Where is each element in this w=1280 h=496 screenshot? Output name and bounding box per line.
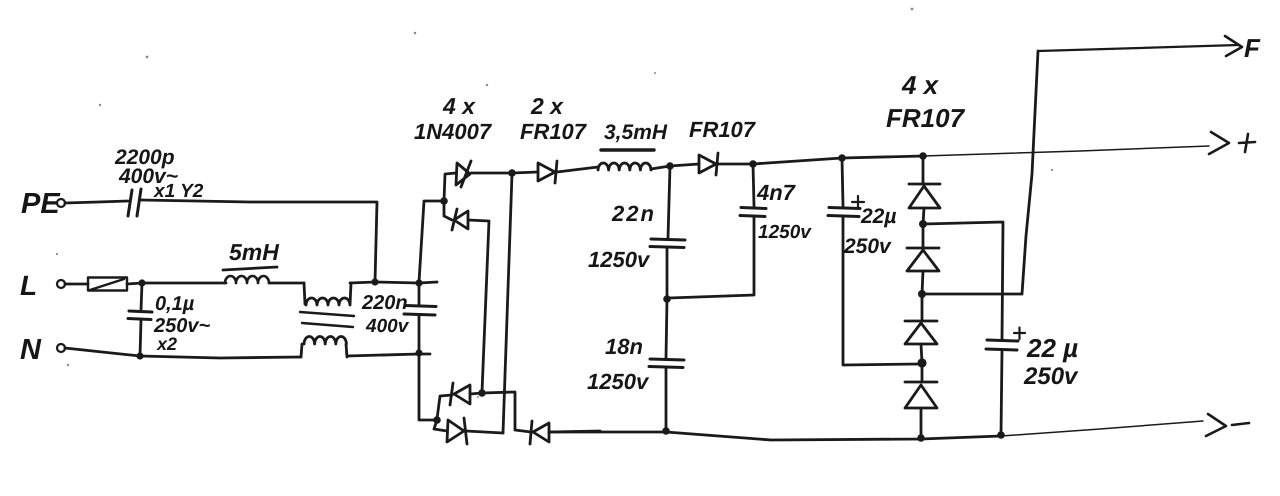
diode D9 FR107 (907, 248, 939, 271)
label C6 4n7 1250V (756, 180, 812, 243)
wire D5 anode to minus rail (549, 431, 600, 432)
capacitor C3 220n X-cap (404, 284, 436, 353)
svg-text:1250v: 1250v (587, 369, 650, 394)
common-mode choke L2 lower winding (301, 337, 347, 358)
label bridge 4X 1N4007 (414, 93, 493, 144)
terminal N (20, 334, 65, 366)
wire node K3 to diode D11 (921, 363, 924, 381)
capacitor C8 22u electrolytic (986, 328, 1025, 436)
diode D7 FR107 (699, 153, 718, 175)
fuse F1 (88, 278, 127, 291)
node C4-C5 junction (663, 295, 671, 303)
wire D7 to node T2 (718, 163, 753, 166)
node T1 junction (666, 162, 674, 170)
wire node A to D2 cathode (444, 201, 452, 220)
terminal L (20, 270, 65, 301)
label C2 0,1u 250V~ x2 (153, 293, 210, 354)
svg-text:0,1µ: 0,1µ (155, 293, 195, 315)
wire L3 to node T1 (651, 166, 670, 169)
svg-text:22n: 22n (611, 201, 656, 226)
svg-text:22µ: 22µ (860, 205, 896, 228)
diode D8 FR107 (909, 184, 940, 208)
capacitor C4 22n (650, 166, 685, 299)
common-mode choke L2 core (300, 312, 354, 327)
wire node M to D5 cathode (482, 392, 531, 432)
capacitor C5 18n (649, 299, 684, 431)
svg-text:400v: 400v (365, 316, 410, 337)
svg-text:220n: 220n (361, 292, 408, 314)
wire D9 to node K2 (922, 271, 923, 294)
wire node K2 to diode D10 (921, 294, 924, 320)
node C8 minus rail junction (997, 431, 1005, 439)
node C3 top junction (415, 279, 422, 286)
node B bridge AC input junction (433, 416, 441, 424)
wire node P1 to diode D6 (512, 172, 538, 173)
wire node T4 to diode D8 (922, 156, 925, 183)
node C3 bottom junction (415, 349, 422, 356)
wire node T2 to node T3 (753, 158, 842, 164)
label C1 2200p 400V~ X1Y2 (114, 146, 204, 202)
wire D6 to inductor L3 (557, 167, 598, 172)
node A bridge AC input junction (440, 197, 448, 205)
terminal PE (21, 188, 65, 220)
node K3 junction (917, 358, 926, 367)
svg-text:FR107: FR107 (520, 119, 588, 144)
node K1 junction (919, 220, 927, 228)
diode D6 FR107 plus rail (538, 161, 557, 183)
node chain minus rail junction (917, 434, 925, 442)
wire node K1 to diode D9 (922, 224, 925, 247)
svg-text:FR107: FR107 (886, 103, 966, 133)
svg-text:250v: 250v (1023, 363, 1079, 390)
wire node T4 to plus output arrow (923, 146, 1209, 156)
wire node T3 to node T4 (842, 156, 923, 158)
diode D2 1N4007 (452, 209, 468, 230)
wire node K2 to F output riser (922, 51, 1038, 294)
svg-text:2 x: 2 x (530, 93, 564, 119)
label C8 22u 250V (1023, 333, 1079, 390)
wire node N0 to choke lower winding (140, 356, 301, 358)
label C4 22n 1250V (588, 201, 656, 272)
wire minus rail (549, 432, 1001, 440)
node T4 plus output junction (919, 152, 927, 160)
node PE-L junction (371, 278, 378, 285)
svg-text:F: F (1244, 33, 1261, 63)
arrow F output (1225, 33, 1261, 63)
label 2X FR107 (520, 93, 588, 144)
wire F riser to F arrow (1038, 45, 1238, 51)
node P1 plus-rail junction (508, 169, 516, 177)
svg-text:18n: 18n (605, 334, 643, 359)
node M minus junction (478, 389, 486, 397)
svg-text:5mH: 5mH (229, 239, 279, 265)
diode D11 FR107 (905, 382, 937, 408)
wire D4 cathode to plus riser (466, 431, 503, 433)
diode D3 1N4007 (450, 383, 470, 405)
node L0 junction (138, 279, 145, 286)
label C7 22u 250V (843, 205, 896, 258)
wire D1 cathode to node P1 (471, 172, 512, 175)
capacitor C2 0,1u X-cap (128, 283, 152, 356)
inductor L1 5mH coil with core (223, 267, 277, 283)
scan speckles (56, 8, 1053, 398)
node N0 junction (136, 352, 143, 359)
wire D10 to node K3 (921, 344, 922, 363)
capacitor C7 22u electrolytic (828, 158, 918, 365)
capacitor C1 2200p Y-cap (128, 189, 141, 216)
label chain 4X FR107 (886, 70, 966, 133)
node C5 minus rail junction (662, 427, 670, 435)
wire C1 to node L1 (PE riser) (141, 200, 377, 282)
capacitor C6 4n7 (669, 164, 766, 298)
label C5 18n 1250V (587, 334, 650, 394)
svg-text:N: N (20, 334, 42, 366)
wire L terminal to fuse F1 (65, 283, 88, 286)
inductor L3 3,5mH coil with core (598, 150, 654, 170)
arrow plus output (1209, 132, 1255, 154)
node T2 junction (749, 160, 757, 168)
wire D3 cathode to node B (437, 395, 452, 419)
wire node B to D4 anode (434, 420, 447, 431)
wire minus rail to minus arrow (1001, 421, 1203, 436)
arrow minus output (1206, 414, 1249, 436)
svg-text:4n7: 4n7 (756, 180, 797, 205)
wire choke upper out to node A riser (350, 282, 437, 283)
wire PE terminal to C1 (65, 201, 128, 203)
svg-text:1N4007: 1N4007 (414, 119, 493, 144)
svg-text:FR107: FR107 (689, 117, 757, 142)
wire node C3 bottom down to bridge node B (419, 353, 436, 420)
svg-text:1250v: 1250v (758, 222, 812, 243)
wire node A up to bridge (419, 201, 444, 282)
wire choke lower out to node C3 bottom (347, 354, 430, 356)
diode D1 1N4007 (456, 161, 471, 187)
svg-text:x1 Y2: x1 Y2 (153, 181, 204, 202)
common-mode choke L2 upper winding (304, 283, 351, 305)
svg-text:250v: 250v (843, 235, 892, 258)
node K2 junction (918, 290, 926, 298)
svg-text:22 µ: 22 µ (1026, 333, 1078, 363)
wire D3 anode to node M (470, 393, 482, 394)
svg-text:1250v: 1250v (588, 247, 651, 272)
wire D11 to minus rail (920, 408, 923, 438)
diode D4 1N4007 (447, 418, 467, 444)
svg-text:L: L (20, 270, 37, 301)
svg-text:x2: x2 (156, 334, 177, 354)
wire node T1 to diode D7 (670, 164, 699, 166)
wire fuse to node L0 (127, 283, 142, 284)
wire D8 to node K1 (923, 208, 924, 224)
wire N terminal to node N0 (65, 348, 140, 356)
svg-text:3,5mH: 3,5mH (604, 121, 668, 144)
diode D5 FR107 minus rail (530, 421, 549, 444)
svg-text:4 x: 4 x (442, 93, 476, 119)
wire node K1 to capacitor C8 (923, 222, 1003, 340)
node T3 junction (838, 154, 846, 162)
wire plus riser D4 to node P1 (503, 174, 512, 433)
svg-text:4 x: 4 x (901, 70, 940, 100)
diode D10 FR107 (905, 321, 937, 344)
wire node A to diode D1 (444, 173, 456, 201)
wire node L0 to inductor L1 (142, 282, 226, 285)
wire D2 anode down to node M (468, 220, 489, 392)
svg-text:PE: PE (21, 188, 61, 220)
label C3 220n 400V (361, 292, 410, 337)
wire L1 to choke L2 (269, 282, 304, 285)
